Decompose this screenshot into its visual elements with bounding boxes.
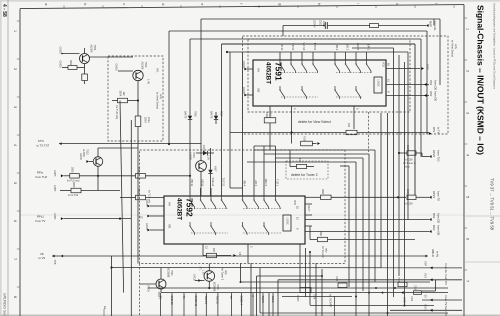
riser x356b xyxy=(355,297,357,316)
svg-text:8: 8 xyxy=(13,296,17,298)
signal AMLR to AL xyxy=(425,255,428,258)
page margin rule xyxy=(7,0,9,316)
svg-text:g: g xyxy=(278,3,282,5)
resistor R400c xyxy=(289,150,291,167)
svg-text:for SCART: for SCART xyxy=(329,294,333,308)
svg-text:4507: 4507 xyxy=(214,166,217,172)
svg-text:to View Select: to View Select xyxy=(156,92,160,109)
svg-text:7502: 7502 xyxy=(144,62,148,68)
svg-text:BAV70: BAV70 xyxy=(210,111,213,119)
svg-text:3598: 3598 xyxy=(406,189,409,195)
wire VS2 xyxy=(386,95,429,97)
riser x358 xyxy=(276,157,364,159)
svg-text:GND5: GND5 xyxy=(145,223,148,230)
svg-text:5: 5 xyxy=(466,196,470,198)
svg-text:ABC 5: ABC 5 xyxy=(264,179,267,187)
capacitor C2504 xyxy=(135,116,141,127)
riser x344 xyxy=(254,149,375,151)
resistor R7505 xyxy=(370,24,379,28)
svg-text:T/P 1: T/P 1 xyxy=(367,44,370,51)
svg-text:only: only xyxy=(159,94,163,100)
svg-text:-7V: -7V xyxy=(139,216,143,220)
scanner edge strip left xyxy=(0,0,2,316)
ic U7591 pins left xyxy=(244,68,247,71)
wire T7503 emitter xyxy=(97,166,99,190)
svg-text:GND5: GND5 xyxy=(115,64,119,72)
svg-text:100n: 100n xyxy=(313,294,315,300)
svg-text:SVS: SVS xyxy=(424,273,427,278)
svg-text:Anschlussbelegungen und Schalt: Anschlussbelegungen und Schaltpläne / La… xyxy=(493,2,497,89)
bus wire y282 xyxy=(241,281,431,283)
svg-text:TU2 12: TU2 12 xyxy=(222,178,225,187)
capacitor C2203 xyxy=(283,25,324,27)
svg-text:AD 2: AD 2 xyxy=(254,180,257,186)
svg-text:3: 3 xyxy=(466,112,470,114)
svg-text:287: 287 xyxy=(212,248,215,253)
svg-text:for Tuner 2: for Tuner 2 xyxy=(221,268,224,281)
signal VS2 from DE xyxy=(424,94,427,97)
svg-text:delete for View Select: delete for View Select xyxy=(298,120,331,124)
svg-text:VD 15: VD 15 xyxy=(201,179,204,187)
svg-text:ATV: ATV xyxy=(432,127,436,132)
capacitor C3598 xyxy=(407,195,416,199)
svg-text:FB 4: FB 4 xyxy=(335,45,338,51)
svg-text:GND5: GND5 xyxy=(242,61,245,68)
svg-text:BAV70: BAV70 xyxy=(184,111,187,119)
dashed box to View Select only xyxy=(108,56,163,141)
svg-text:GND5: GND5 xyxy=(296,295,298,302)
grid column letters top xyxy=(44,3,454,8)
svg-text:VIA: VIA xyxy=(257,68,260,72)
svg-text:to AL: to AL xyxy=(436,251,440,258)
resistor R3504 xyxy=(112,100,118,102)
ic U7592 pins top group 1 xyxy=(190,178,225,196)
transistor T7502 xyxy=(133,70,143,80)
bus riser x210 xyxy=(210,148,212,166)
wire x120 riser xyxy=(120,101,124,293)
signal RS2 from DB xyxy=(305,231,429,233)
svg-text:GND5 11: GND5 11 xyxy=(194,296,198,307)
svg-text:h: h xyxy=(317,3,321,5)
wire below C2504 xyxy=(137,127,139,264)
wire T7543 collector xyxy=(208,264,210,271)
resistor R3562 xyxy=(305,196,321,198)
bottom connector pins xyxy=(158,293,274,316)
svg-text:GND5: GND5 xyxy=(242,87,245,94)
svg-text:1N4148: 1N4148 xyxy=(202,145,205,154)
svg-text:for TU2 only: for TU2 only xyxy=(115,106,118,120)
wire T7540 base xyxy=(140,283,156,285)
svg-text:3504: 3504 xyxy=(119,91,122,97)
svg-text:a: a xyxy=(44,3,48,5)
svg-text:VS1: VS1 xyxy=(429,80,433,86)
svg-text:from V5: from V5 xyxy=(444,306,448,316)
riser x300 xyxy=(299,244,301,288)
svg-text:to for TU2: to for TU2 xyxy=(68,194,79,197)
svg-text:GND5: GND5 xyxy=(79,153,82,160)
wire VS1 xyxy=(386,84,429,86)
svg-text:GND5: GND5 xyxy=(145,199,148,206)
signal from TV xyxy=(422,299,462,301)
svg-text:7503: 7503 xyxy=(86,149,89,155)
wire emitter T7502 down xyxy=(137,81,139,116)
svg-text:GND5: GND5 xyxy=(53,185,55,192)
svg-text:TU2 12: TU2 12 xyxy=(216,296,220,305)
ic U7591 switches row 2 xyxy=(279,86,360,99)
svg-text:GND5: GND5 xyxy=(53,213,55,220)
wire loop y52 xyxy=(227,51,408,53)
ic U7591 pins top group 1 xyxy=(280,42,316,60)
svg-text:3805: 3805 xyxy=(72,182,75,188)
resistor R4099 xyxy=(269,106,271,118)
svg-text:c: c xyxy=(122,3,126,5)
scanner edge line bottom xyxy=(0,314,500,316)
riser x404 xyxy=(404,62,406,305)
svg-text:from TN: from TN xyxy=(444,275,448,285)
svg-text:7591: 7591 xyxy=(274,62,284,81)
resistor R287 xyxy=(203,255,207,257)
wire svs branch xyxy=(435,280,437,291)
riser x316 xyxy=(315,263,317,316)
svg-text:APV1: APV1 xyxy=(432,191,436,199)
svg-text:1003: 1003 xyxy=(335,276,337,282)
wire T7543 emitter xyxy=(208,281,210,288)
resistor R3597 xyxy=(310,239,317,241)
signal GSS xyxy=(386,68,420,70)
svg-text:2517: 2517 xyxy=(406,145,409,151)
svg-text:TOB: TOB xyxy=(53,260,56,265)
svg-text:RS1: RS1 xyxy=(432,213,436,219)
wire base T7502 xyxy=(118,70,133,72)
svg-text:2: 2 xyxy=(13,68,17,70)
svg-text:AU306: AU306 xyxy=(90,45,94,53)
dashed box mini tuner2 xyxy=(286,161,328,179)
svg-text:3: 3 xyxy=(13,106,17,108)
riser x381 xyxy=(380,113,382,268)
svg-text:Signal-Chassis – IN/OUT (KSMD: Signal-Chassis – IN/OUT (KSMD – IO) xyxy=(476,5,486,155)
svg-text:f: f xyxy=(239,3,243,4)
resistor R3504a xyxy=(62,67,68,69)
svg-text:2203: 2203 xyxy=(319,20,322,26)
svg-text:6: 6 xyxy=(13,220,17,222)
scanner edge strip top xyxy=(0,0,500,2)
resistor R400b xyxy=(301,141,313,146)
signal from AL xyxy=(112,267,463,269)
riser x111 xyxy=(111,256,113,316)
ic U7592 switches row 2 xyxy=(189,222,268,235)
ic U7592 pins bottom xyxy=(202,244,204,256)
bus wire y313 xyxy=(260,312,448,314)
svg-text:2805: 2805 xyxy=(71,167,74,173)
ic U7591 internal dashed xyxy=(281,72,318,74)
svg-text:7507: 7507 xyxy=(220,111,223,117)
riser x387 xyxy=(387,113,389,316)
svg-text:AD 2: AD 2 xyxy=(346,44,349,50)
svg-text:VSP: VSP xyxy=(424,261,427,266)
dashed box view select inner xyxy=(248,39,410,112)
bus riser x201 xyxy=(200,19,202,161)
svg-text:100n: 100n xyxy=(322,21,325,27)
transistor T7503 xyxy=(93,157,103,167)
signal VS1 from DE xyxy=(424,83,427,86)
svg-text:TU2 8: TU2 8 xyxy=(261,296,265,304)
ic U7591 pins bottom xyxy=(291,106,293,144)
capacitor C1556 xyxy=(401,291,404,294)
svg-text:FB 11: FB 11 xyxy=(280,44,283,51)
signal from TN xyxy=(278,279,462,281)
svg-text:100u: 100u xyxy=(147,117,150,123)
bus wire y305 xyxy=(310,305,434,307)
junction dots bottom right xyxy=(240,251,406,314)
svg-text:AU306: AU306 xyxy=(141,62,145,70)
svg-text:1: 1 xyxy=(466,28,470,30)
svg-text:GND 11: GND 11 xyxy=(170,296,174,306)
capacitor C2517 xyxy=(399,152,407,154)
svg-text:LOGIC: LOGIC xyxy=(286,218,288,225)
svg-text:from DE: from DE xyxy=(437,213,441,223)
svg-text:7509: 7509 xyxy=(303,136,305,142)
svg-text:AMLR: AMLR xyxy=(431,249,435,257)
signal MSP from AL xyxy=(426,24,429,27)
svg-text:TU2 14: TU2 14 xyxy=(204,296,208,305)
ic U7592 logic box xyxy=(283,215,291,231)
svg-text:BC848B: BC848B xyxy=(213,282,216,292)
wire loop y39 xyxy=(190,38,421,40)
svg-text:only: only xyxy=(454,44,458,50)
riser x131 xyxy=(130,120,132,316)
svg-text:VIC 14: VIC 14 xyxy=(302,42,305,50)
svg-text:VSE 14: VSE 14 xyxy=(211,178,214,187)
resistor R2806 xyxy=(136,174,146,179)
ic U7592 internal dashed xyxy=(191,208,228,210)
grid row numbers right xyxy=(464,18,470,282)
wire loop y44 xyxy=(222,43,416,45)
svg-text:to V5: to V5 xyxy=(39,256,46,260)
bus riser x230 xyxy=(229,52,231,188)
svg-text:delete for Tuner 2: delete for Tuner 2 xyxy=(291,173,318,177)
fold crease line xyxy=(20,214,464,216)
wire RPct to node xyxy=(146,175,191,177)
svg-text:k: k xyxy=(395,3,399,5)
diode D7506 xyxy=(189,112,191,116)
svg-text:from TU2: from TU2 xyxy=(437,150,441,162)
riser x310 xyxy=(309,252,311,305)
riser x369b xyxy=(368,287,370,316)
signal APV2 from TU2 xyxy=(422,156,429,158)
wire T7540 collector xyxy=(160,268,162,280)
svg-text:SADY: SADY xyxy=(307,205,310,212)
capacitor C3503 xyxy=(82,74,88,81)
svg-text:VIB: VIB xyxy=(168,224,171,228)
bus riser x221 xyxy=(221,44,223,188)
svg-text:7504: 7504 xyxy=(93,45,97,51)
svg-text:7592: 7592 xyxy=(185,198,195,217)
wire base T7504 xyxy=(62,53,80,55)
diode D7507 xyxy=(215,112,217,116)
bus riser x242 xyxy=(242,52,244,188)
bus wire y292 xyxy=(161,292,448,294)
ic U7592 pins top group 2 xyxy=(243,179,279,196)
dashed line tuner2 to bottom xyxy=(139,264,141,316)
bus wire y288 xyxy=(148,287,448,289)
svg-text:AFL: AFL xyxy=(156,68,159,73)
wire emitter T7504 xyxy=(84,64,86,75)
wire loop y19 xyxy=(201,18,440,20)
bus riser x275 xyxy=(275,146,277,188)
svg-text:7540: 7540 xyxy=(170,270,173,276)
ic U7591 pins top group 2 xyxy=(335,43,370,60)
svg-text:1k2: 1k2 xyxy=(122,92,125,97)
wire collector T7504 xyxy=(90,56,109,58)
component box 1003 xyxy=(338,283,347,288)
wire T7540 emitter xyxy=(160,289,162,293)
svg-text:to TV: to TV xyxy=(437,127,441,134)
svg-text:S/OTV: S/OTV xyxy=(313,20,316,28)
riser x393 xyxy=(393,48,395,297)
svg-text:-2V: -2V xyxy=(424,294,427,298)
svg-text:1: 1 xyxy=(13,30,17,32)
wire loop y31 xyxy=(169,30,427,32)
svg-text:4099: 4099 xyxy=(265,112,268,118)
svg-text:from TV: from TV xyxy=(36,219,46,223)
ic U7591 4052BT xyxy=(253,60,386,106)
riser x399 xyxy=(398,55,400,276)
svg-text:d: d xyxy=(161,3,165,5)
svg-text:7: 7 xyxy=(466,280,470,282)
ic U7591 logic box xyxy=(374,77,382,93)
svg-text:TV: TV xyxy=(229,296,233,300)
svg-text:T/H 12: T/H 12 xyxy=(313,42,316,50)
svg-text:from TV: from TV xyxy=(444,296,448,306)
bus riser x264 xyxy=(263,146,265,188)
svg-text:to View Select: to View Select xyxy=(451,40,455,57)
transistor T7543 xyxy=(204,271,215,282)
svg-text:ASC 5: ASC 5 xyxy=(356,43,359,51)
resistor R1536 xyxy=(397,276,399,280)
svg-text:7501: 7501 xyxy=(192,152,196,158)
transistor T7501 xyxy=(196,161,207,172)
bus riser x190 xyxy=(189,39,191,112)
svg-text:3562: 3562 xyxy=(321,189,324,195)
wire cap stub down xyxy=(282,26,284,37)
bus wire y297 xyxy=(282,296,352,298)
svg-text:1.5V: 1.5V xyxy=(202,270,204,275)
svg-text:100n: 100n xyxy=(410,296,412,302)
ic U7592 switches row 1 xyxy=(189,196,280,209)
dashed box delete for View Select xyxy=(243,36,449,134)
title block separator 2 xyxy=(464,261,500,263)
svg-text:7506: 7506 xyxy=(194,111,197,117)
svg-text:TU2 1: TU2 1 xyxy=(271,296,275,304)
grid row numbers left xyxy=(13,21,20,298)
svg-text:from AL: from AL xyxy=(444,264,448,274)
resistor R2805 xyxy=(70,174,80,179)
svg-text:4: 4 xyxy=(466,154,470,156)
svg-text:VD 13: VD 13 xyxy=(291,43,294,51)
svg-text:1.5V: 1.5V xyxy=(207,155,210,160)
svg-text:4: 4 xyxy=(13,144,17,146)
svg-text:VS2: VS2 xyxy=(429,91,433,97)
svg-text:6: 6 xyxy=(466,238,470,240)
svg-text:e: e xyxy=(200,3,204,5)
svg-text:VIB: VIB xyxy=(257,88,260,92)
ic U7592 pins left xyxy=(147,205,150,208)
svg-text:4 - 58: 4 - 58 xyxy=(1,4,7,17)
schematic border right xyxy=(463,5,465,316)
svg-text:LOGIC: LOGIC xyxy=(377,80,379,87)
diode D7508 horizontal xyxy=(196,152,203,154)
svg-text:4052BT: 4052BT xyxy=(265,62,272,84)
riser x351 xyxy=(264,153,369,155)
svg-text:AU306: AU306 xyxy=(189,152,193,160)
svg-text:MSP: MSP xyxy=(429,21,433,27)
signal ATV to TV xyxy=(230,132,346,134)
svg-text:GRUNDIG Service: GRUNDIG Service xyxy=(3,293,7,316)
svg-text:VDD: VDD xyxy=(382,62,385,67)
svg-text:GSS: GSS xyxy=(426,64,430,70)
riser x434 xyxy=(433,19,435,26)
riser x322 xyxy=(321,269,323,316)
dashed segment tuner area xyxy=(368,112,370,152)
schematic border top xyxy=(20,5,464,9)
riser x349 xyxy=(348,166,350,287)
ic U7592 4052BT xyxy=(164,196,305,244)
svg-text:3502: 3502 xyxy=(69,60,72,66)
svg-text:T/L: T/L xyxy=(158,296,162,300)
svg-text:from TU2: from TU2 xyxy=(36,175,48,179)
svg-text:GND5 4: GND5 4 xyxy=(239,296,243,306)
svg-text:2504: 2504 xyxy=(144,117,147,123)
signal from V5 xyxy=(390,309,462,311)
svg-text:GND5: GND5 xyxy=(53,170,55,177)
svg-text:from DE: from DE xyxy=(434,91,438,101)
svg-text:from TV: from TV xyxy=(437,191,441,201)
svg-text:1R: 1R xyxy=(269,113,272,116)
bus riser x254 xyxy=(253,146,255,188)
riser x305 xyxy=(305,248,307,297)
svg-text:TU2 1: TU2 1 xyxy=(276,179,279,186)
diode D4507 zener xyxy=(210,166,212,170)
transistor T7540 xyxy=(156,279,166,289)
svg-text:only: only xyxy=(405,166,410,169)
svg-text:PB 11: PB 11 xyxy=(190,179,193,186)
svg-text:only: only xyxy=(224,270,227,275)
svg-text:VDD: VDD xyxy=(293,200,296,205)
signal RS1 from DE xyxy=(305,219,429,221)
component box 7546 xyxy=(300,288,311,293)
svg-text:5: 5 xyxy=(13,182,17,184)
resistor R3806 xyxy=(120,197,136,199)
riser x365 xyxy=(247,161,356,163)
svg-text:APV2: APV2 xyxy=(432,150,436,158)
svg-text:bw: bw xyxy=(103,306,106,309)
svg-text:4052BT: 4052BT xyxy=(176,198,183,220)
wire T7503 collector xyxy=(97,148,99,157)
riser x251 xyxy=(250,263,252,316)
title block separator 1 xyxy=(464,215,500,217)
svg-text:PB 4: PB 4 xyxy=(243,181,246,187)
dashed box delete for Tuner 2 xyxy=(140,150,346,264)
svg-text:to TX,TST: to TX,TST xyxy=(37,143,50,147)
schematic border left xyxy=(19,9,21,316)
svg-text:1.4V: 1.4V xyxy=(147,79,150,84)
svg-text:for Tuner 2: for Tuner 2 xyxy=(321,246,324,258)
riser x269 xyxy=(268,293,270,316)
svg-text:RS2: RS2 xyxy=(432,225,436,231)
svg-text:from DB: from DB xyxy=(437,225,441,235)
signal APV1 from TV xyxy=(416,196,429,198)
svg-text:7: 7 xyxy=(13,258,17,260)
